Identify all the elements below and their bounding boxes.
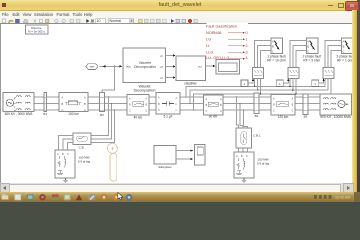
svg-text:Fault classification: Fault classification [206,25,237,29]
svg-text:B2: B2 [100,113,104,117]
taskbar icon chrome [126,194,133,201]
svg-text:C: C [158,109,160,112]
taskbar icon pen gray [88,194,95,200]
wire breaker CB to load1 [59,136,74,151]
measurement block B1 [43,93,47,117]
wire taps down to breaker CB [91,97,115,143]
svg-text:C: C [146,110,148,113]
wire switch1 to fault block1 [255,41,272,68]
wire constant2 to fault block2 [283,81,288,84]
app icon [2,3,6,8]
svg-text:RF = 10 ohm: RF = 10 ohm [267,59,286,63]
taskbar icon maroon triangle [76,194,82,200]
measurement block B4 [254,93,259,118]
svg-text:B: B [272,44,274,48]
menu bar [0,11,352,18]
svg-text:out: out [198,65,202,69]
node junction on signal line [114,66,115,67]
svg-text:C.B.: C.B. [79,146,85,150]
svg-text:2: 2 [246,44,248,48]
wire bus phase B [34,103,320,105]
taskbar [0,192,360,202]
svg-text:4: 4 [246,56,248,60]
svg-text:B1: B1 [43,112,47,116]
load2 block 100 MW [234,152,270,178]
wire fault feeder 1 [186,86,325,97]
measurement block B3 [303,94,308,119]
wire switch3 to fault block3 [325,41,342,68]
wire B2 measurement output to wavelet input [102,66,115,92]
svg-text:RF = 3 ohm: RF = 3 ohm [303,59,320,63]
distributed line 40 km [127,95,149,120]
subsystem block [154,146,176,170]
window body [0,0,357,192]
node taps to fault wires [185,96,186,97]
powergui block [26,25,49,34]
fault switch block 3 phase [342,38,354,54]
svg-text:C: C [246,155,248,158]
svg-text:Ts = 5e-005 s.: Ts = 5e-005 s. [28,29,46,33]
breaker C.B. [73,133,91,150]
wire subsystem to scope [176,151,191,159]
svg-text:30 km: 30 km [209,115,218,119]
wire bus phase A [34,96,320,98]
display block [216,60,240,75]
wire constant3 to fault block3 [319,81,324,84]
svg-text:120 km: 120 km [278,115,289,119]
canvas [0,24,353,183]
svg-text:0.9 pf lag: 0.9 pf lag [78,160,91,164]
taskbar icon red-green app [52,194,59,200]
constant block 1 [241,80,248,87]
scope block near load2 [195,145,206,166]
svg-text:A: A [272,39,274,43]
wire fault block1 to feeders [255,79,261,94]
min button [328,5,333,6]
svg-text:500 KV , 3000 MVA: 500 KV , 3000 MVA [5,112,34,116]
classifier block [176,56,206,86]
wire signal line to goto and wavelet [100,65,123,67]
svg-text:wav: wav [90,66,95,69]
svg-text:A: A [343,39,345,43]
svg-text:C: C [272,49,274,53]
breaker C.B.1 [236,128,261,148]
three-phase source 500kV 3000MVA [3,93,34,117]
svg-text:Subsystem: Subsystem [158,165,173,169]
taskbar icon document [15,194,22,200]
svg-text:NORMAL: NORMAL [206,31,222,35]
pale capsule block [110,154,117,182]
close button [345,1,359,12]
svg-text:B3: B3 [304,115,308,119]
ground under load2 [241,178,246,183]
svg-text:LLL OR LLLG: LLL OR LLLG [206,56,229,60]
svg-text:3: 3 [246,51,248,55]
svg-text:B: B [84,102,86,106]
taskbar icon firefox orange [101,194,107,200]
svg-text:C: C [343,49,345,53]
legend fault classification [207,23,249,59]
taskbar icon starburst [113,194,120,201]
measurement block B2 [100,93,105,117]
toolbar [0,18,352,25]
wire CB1 to load2 [239,148,248,152]
distributed line 120 km [271,95,295,119]
wire fault feeder 2 [190,90,328,103]
svg-text:classifier: classifier [184,82,197,86]
max button [338,3,344,9]
title bar [0,0,357,11]
svg-text:500 KV , 10000 MVA: 500 KV , 10000 MVA [320,115,351,119]
svg-text:Decomposition: Decomposition [134,89,156,93]
three-phase fault block 2 [288,68,299,79]
node taps to CB1 [236,96,237,97]
wire classifier to display [206,65,214,67]
svg-text:LL: LL [206,44,210,48]
svg-text:B: B [343,44,345,48]
window right border [352,10,357,192]
svg-text:Decomposition: Decomposition [134,65,156,69]
distributed line 30 km [204,95,224,119]
svg-text:10:42 AM: 10:42 AM [335,196,350,200]
fault switch block 2 phase [306,38,318,54]
pale highlight circle [108,143,118,153]
wire wavelet outputs to classifier [166,56,174,78]
svg-text:A: A [62,95,64,99]
three-phase fault block 1 [253,68,264,79]
svg-text:C: C [129,110,131,113]
svg-text:C: C [220,110,222,113]
svg-text:C: C [62,108,64,112]
svg-text:5.1 µF: 5.1 µF [163,115,172,119]
taskbar icon maroon app [39,194,45,200]
constant block 2 [276,80,283,87]
fault switch block 1 phase [271,38,283,54]
wire fault feeder 3 [194,94,332,110]
svg-text:1: 1 [246,38,248,42]
wire bus phase C [34,109,320,111]
series capacitor block 5.1 uF [156,93,180,119]
three-phase fault block 3 [323,68,334,79]
wire constant1 to fault block1 [248,81,253,84]
load1 block 100 MW [55,150,91,178]
wire taps down to breaker CB1 [237,97,248,128]
desktop strip right [357,0,360,202]
svg-text:A: A [307,39,309,43]
distributed line 100 km [59,93,88,117]
svg-text:C: C [292,110,294,113]
svg-text:Iabc: Iabc [126,65,132,69]
taskbar icon folder [2,194,9,200]
svg-text:40 km: 40 km [134,116,143,120]
three-phase source 500kV 10000MVA [320,94,352,119]
fault groups [241,38,355,95]
title text [120,2,240,10]
svg-text:C: C [84,108,86,112]
node taps after B2 [108,96,109,97]
show desktop button [354,192,360,202]
goto tag Iabc [86,64,98,70]
svg-text:A: A [84,95,86,99]
mouse cursor [115,192,127,202]
svg-text:LLG: LLG [206,51,213,55]
svg-text:B: B [307,44,309,48]
constant block 3 [312,80,319,87]
svg-text:B: B [62,102,64,106]
toolbar icons [0,18,200,24]
taskbar icon teal app [27,194,34,200]
taskbar icon light green [64,194,71,200]
wire fault block2 to feeders [290,79,296,94]
svg-text:100 km: 100 km [68,112,79,116]
svg-text:LG: LG [206,38,211,42]
ground under load1 [63,178,68,183]
tray icons [314,195,331,199]
svg-text:0.9 pf lag: 0.9 pf lag [257,162,270,166]
svg-text:0: 0 [246,31,248,35]
svg-text:C: C [273,110,275,113]
horizontal scrollbar [0,183,352,192]
svg-text:B4: B4 [255,114,259,118]
wire fault block3 to feeders [325,79,331,94]
svg-text:C.B.1: C.B.1 [253,134,261,138]
svg-text:C: C [67,153,69,156]
svg-text:C: C [307,49,309,53]
subsystem wavelet decomposition [123,48,166,93]
wire switch2 to fault block2 [290,41,307,68]
svg-text:C: C [206,110,208,113]
